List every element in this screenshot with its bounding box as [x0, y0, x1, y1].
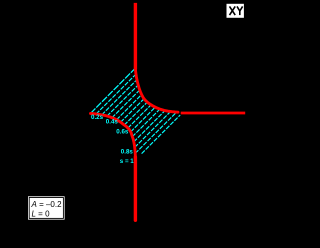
svg-text:s = 1: s = 1: [120, 158, 134, 165]
isochrone line s=1.4: [142, 115, 181, 154]
horizontal red line (right): [181, 112, 246, 115]
isochrone line s=0.9: [131, 107, 156, 132]
isochrone line s=0.6: [121, 99, 145, 123]
trajectory 2 corner curve: [91, 113, 136, 157]
svg-text:A = –0.2: A = –0.2: [31, 200, 63, 209]
isochrone line s=0.7: [124, 102, 147, 125]
isochrone line s=0.4: [112, 90, 140, 118]
trajectory 2 vertical segment (bottom): [134, 157, 137, 220]
trajectory 1 vertical segment (top): [134, 3, 137, 70]
isochrone line s=0.1: [96, 74, 136, 114]
isochrone line s=0.2: [102, 80, 137, 115]
svg-text:0.6s: 0.6s: [116, 128, 129, 135]
svg-text:L = 0: L = 0: [32, 209, 51, 218]
isochrone line s=0.3: [107, 85, 138, 116]
svg-text:0.4s: 0.4s: [106, 118, 119, 125]
isochrone line s=0.0: [91, 68, 136, 113]
svg-text:0.2s: 0.2s: [91, 114, 104, 121]
isochrone line s=1.1: [134, 111, 165, 142]
isochrone line s=0.5: [117, 95, 142, 120]
parameter box: [28, 196, 65, 219]
svg-text:0.8s: 0.8s: [121, 149, 134, 156]
XY letters: [230, 6, 243, 15]
XY box: [227, 4, 244, 18]
trajectory 1 corner curve: [135, 69, 178, 112]
isochrone line s=0.8: [128, 105, 151, 128]
isochrone line s=1.2: [135, 112, 171, 148]
isochrone line s=1.0: [132, 109, 160, 137]
isochrone line s=1.3: [135, 112, 176, 153]
